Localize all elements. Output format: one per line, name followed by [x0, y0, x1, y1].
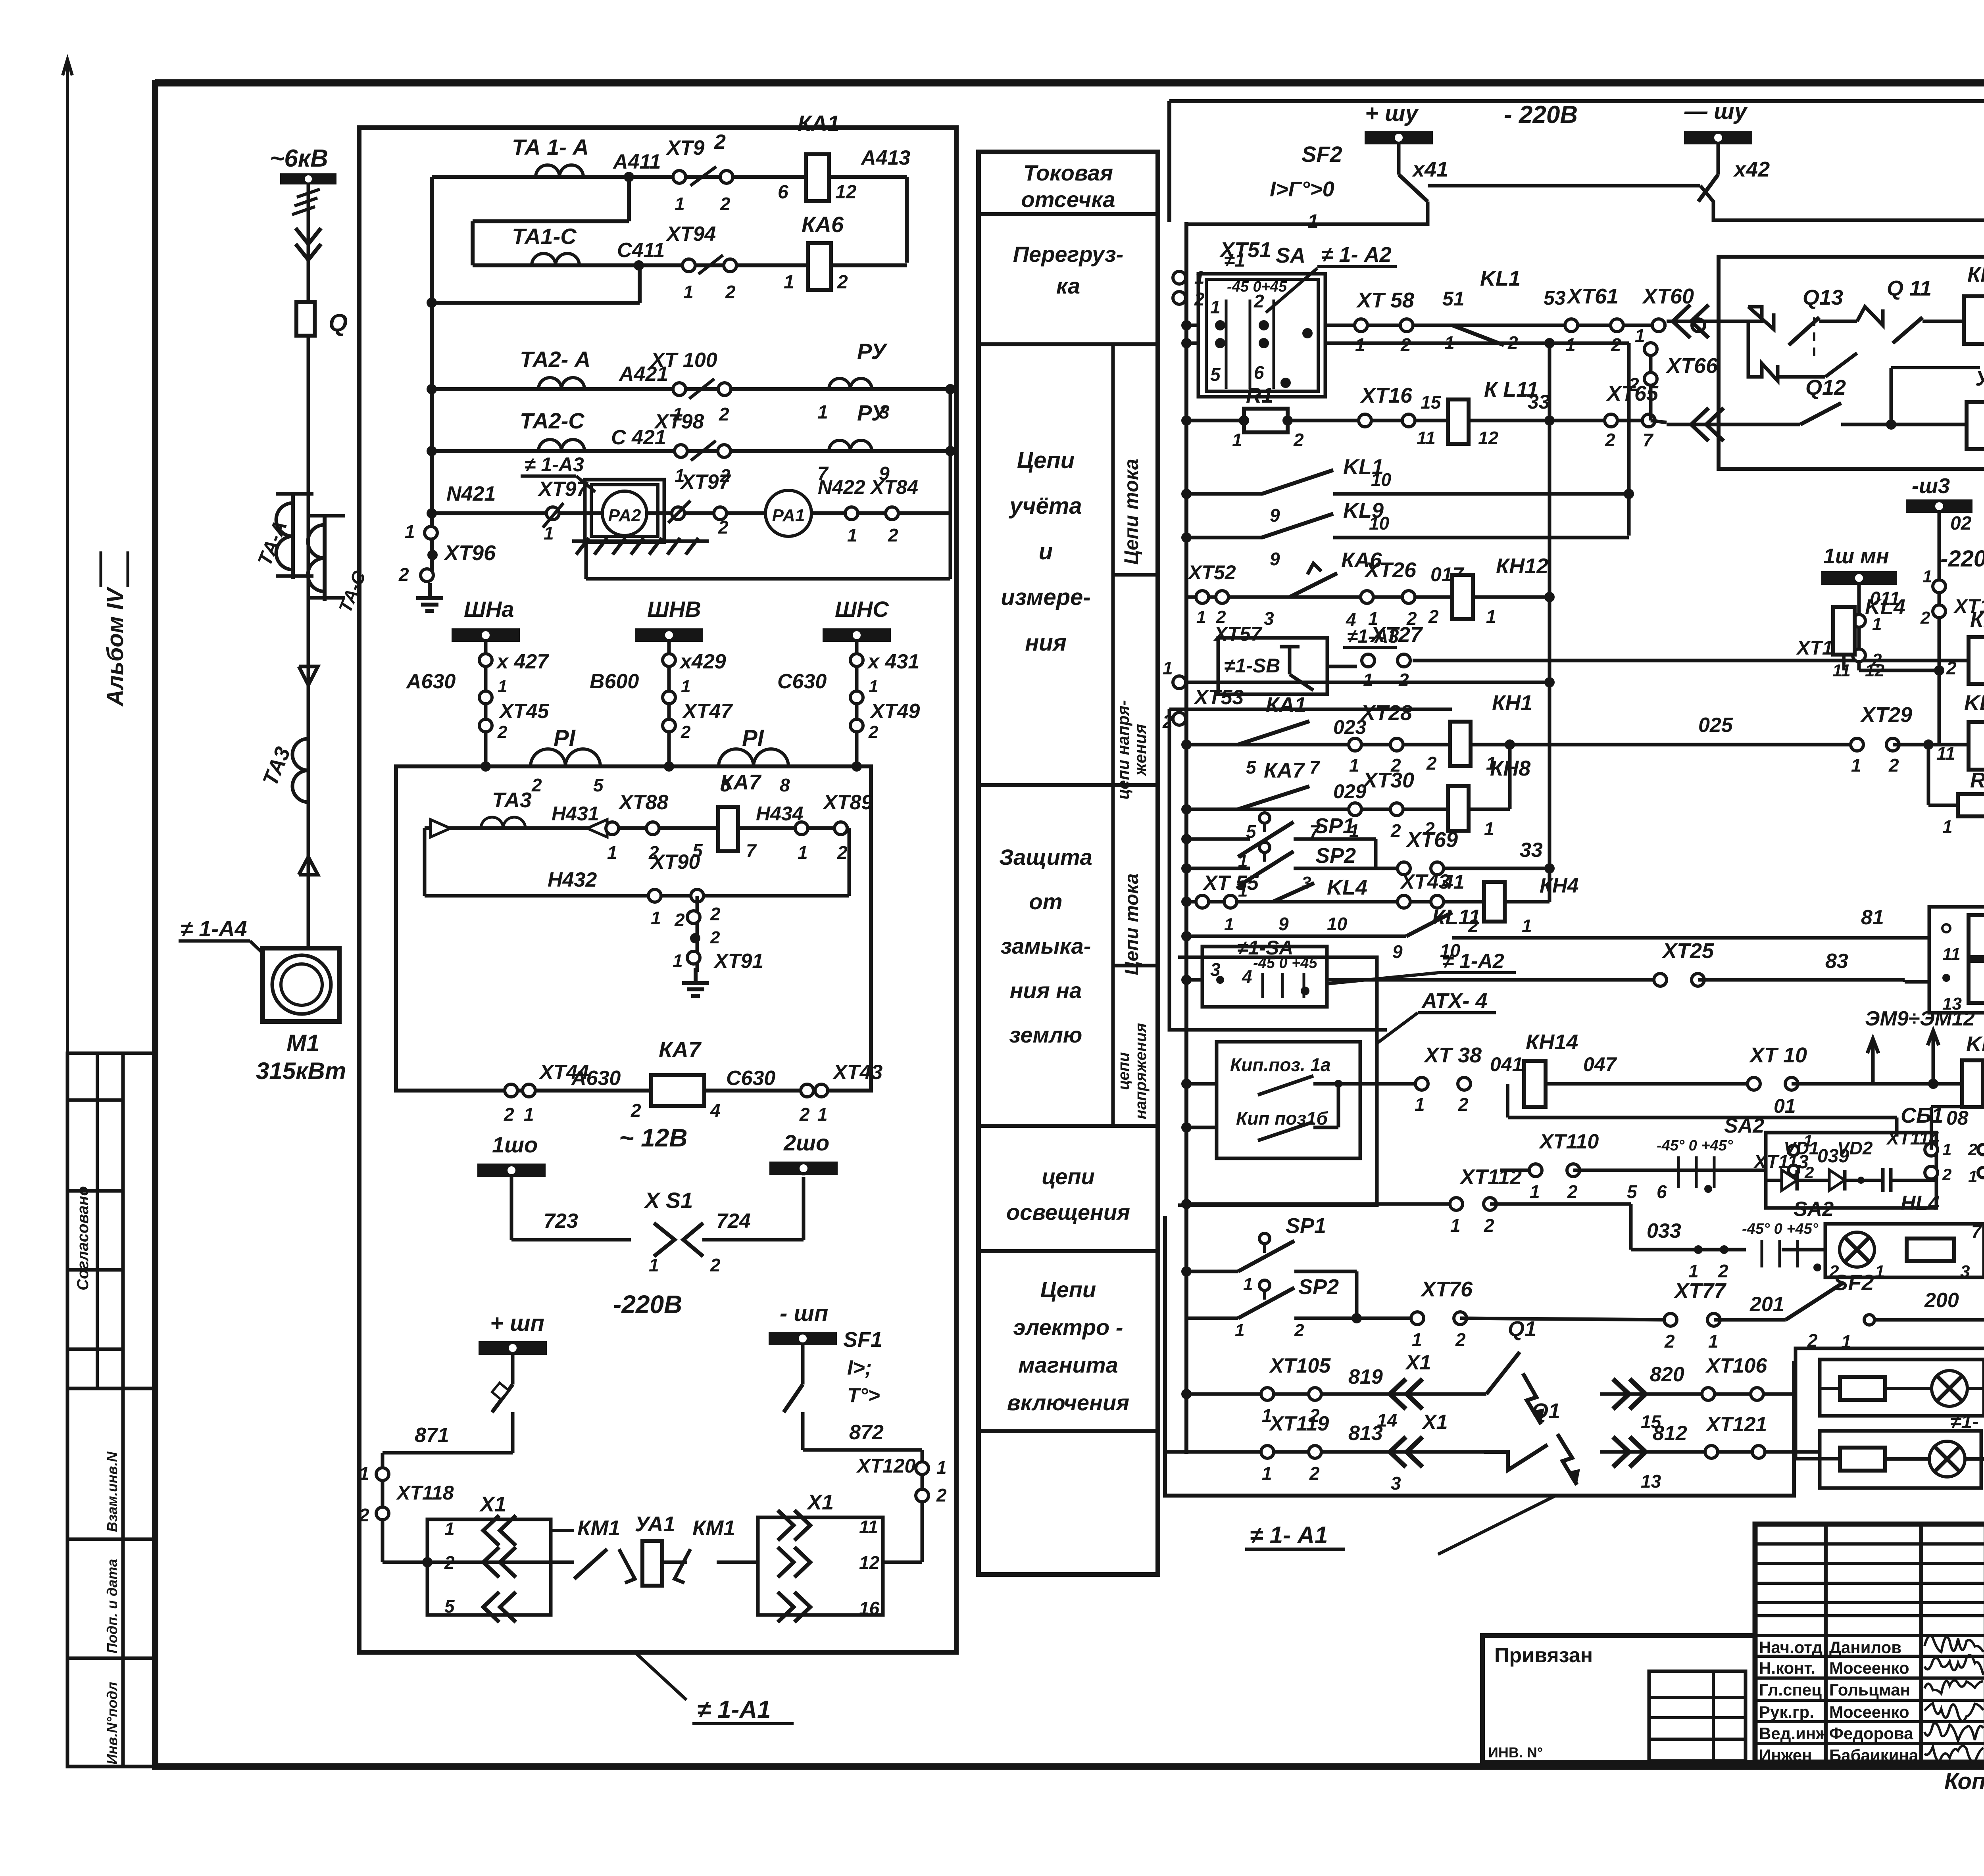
svg-text:2: 2 — [1628, 374, 1639, 395]
svg-text:ХТ97: ХТ97 — [680, 470, 731, 493]
svg-text:12: 12 — [1865, 661, 1884, 680]
svg-text:ХТ 58: ХТ 58 — [1356, 288, 1414, 312]
svg-text:2: 2 — [718, 517, 729, 538]
svg-text:измере-: измере- — [1001, 584, 1090, 610]
svg-text:А411: А411 — [612, 150, 661, 173]
svg-text:KL1: KL1 — [1480, 267, 1521, 290]
svg-text:2: 2 — [1294, 1321, 1304, 1340]
svg-text:2: 2 — [710, 904, 721, 924]
svg-text:VD2: VD2 — [1837, 1138, 1873, 1158]
svg-text:6: 6 — [778, 182, 788, 203]
svg-text:2: 2 — [1567, 1181, 1578, 1202]
svg-text:5: 5 — [1246, 757, 1257, 778]
svg-text:Мосеенко: Мосеенко — [1829, 1659, 1909, 1677]
svg-text:ХТ29: ХТ29 — [1860, 703, 1912, 727]
svg-text:ТА3: ТА3 — [492, 788, 532, 812]
svg-text:Кип поз1б: Кип поз1б — [1236, 1108, 1328, 1129]
svg-text:ХТ16: ХТ16 — [1360, 384, 1413, 407]
svg-text:Н431: Н431 — [552, 803, 599, 825]
svg-text:872: 872 — [849, 1421, 884, 1444]
svg-text:Рук.гр.: Рук.гр. — [1759, 1703, 1814, 1721]
svg-text:УА1: УА1 — [635, 1512, 675, 1536]
svg-text:≠ 1- А2: ≠ 1- А2 — [1321, 243, 1392, 267]
svg-text:Нач.отд: Нач.отд — [1759, 1638, 1823, 1657]
svg-text:SA2: SA2 — [1794, 1198, 1834, 1221]
svg-text:ния: ния — [1025, 630, 1067, 656]
svg-text:Q12: Q12 — [1805, 376, 1846, 399]
svg-text:813: 813 — [1348, 1422, 1383, 1445]
svg-text:2: 2 — [868, 722, 879, 742]
svg-text:02: 02 — [1950, 513, 1972, 534]
svg-text:В600: В600 — [590, 670, 639, 693]
svg-text:2: 2 — [1162, 711, 1173, 732]
svg-text:2: 2 — [504, 1104, 514, 1125]
svg-text:2: 2 — [1605, 430, 1615, 450]
svg-text:6: 6 — [1254, 362, 1264, 383]
svg-text:ХТ119: ХТ119 — [1269, 1412, 1329, 1435]
svg-text:9: 9 — [1392, 941, 1403, 962]
svg-text:7: 7 — [1971, 1221, 1982, 1242]
svg-text:ЭМ9÷ЭМ12: ЭМ9÷ЭМ12 — [1865, 1007, 1975, 1030]
svg-text:цепи напря-: цепи напря- — [1114, 700, 1132, 800]
svg-text:Н.конт.: Н.конт. — [1759, 1659, 1815, 1677]
svg-text:871: 871 — [415, 1424, 449, 1447]
svg-text:Цепи: Цепи — [1017, 447, 1075, 473]
svg-text:1: 1 — [798, 842, 808, 863]
svg-text:200: 200 — [1924, 1289, 1959, 1312]
svg-text:025: 025 — [1698, 714, 1733, 737]
svg-text:1: 1 — [1875, 1262, 1884, 1281]
svg-text:11: 11 — [1832, 661, 1851, 680]
svg-text:2: 2 — [1458, 1094, 1469, 1115]
svg-text:РУ: РУ — [857, 339, 888, 364]
svg-text:ХТ97: ХТ97 — [537, 478, 588, 501]
svg-text:РА1: РА1 — [772, 506, 805, 525]
svg-text:1: 1 — [1851, 755, 1861, 776]
svg-text:Альбом IV: Альбом IV — [102, 586, 128, 707]
svg-text:3: 3 — [1391, 1473, 1401, 1494]
svg-text:R5: R5 — [1970, 768, 1984, 792]
svg-text:1: 1 — [1224, 915, 1234, 934]
svg-text:1: 1 — [675, 194, 685, 214]
svg-text:5: 5 — [1210, 364, 1221, 385]
svg-text:1: 1 — [1942, 1140, 1951, 1159]
svg-text:КА1: КА1 — [1266, 693, 1306, 717]
svg-text:+ шу: + шу — [1365, 100, 1419, 126]
svg-text:1: 1 — [1232, 430, 1242, 450]
svg-text:5: 5 — [444, 1596, 455, 1617]
svg-text:ХТ105: ХТ105 — [1269, 1354, 1331, 1377]
svg-text:учёта: учёта — [1008, 493, 1082, 519]
svg-text:КМ1: КМ1 — [692, 1516, 735, 1540]
svg-text:ХТ28: ХТ28 — [1360, 701, 1412, 725]
svg-text:Инв.N°подл: Инв.N°подл — [104, 1682, 120, 1765]
svg-text:SA2: SA2 — [1724, 1114, 1764, 1137]
svg-text:81: 81 — [1861, 906, 1884, 929]
svg-text:ШНС: ШНС — [835, 597, 889, 622]
svg-text:Q1: Q1 — [1508, 1317, 1536, 1341]
svg-text:КА7: КА7 — [659, 1037, 702, 1062]
svg-text:Х1: Х1 — [806, 1490, 834, 1514]
svg-text:2: 2 — [1968, 1140, 1977, 1159]
svg-text:2: 2 — [714, 131, 726, 154]
svg-text:2: 2 — [631, 1100, 641, 1121]
svg-text:16: 16 — [859, 1598, 880, 1619]
svg-text:2: 2 — [725, 282, 736, 302]
svg-text:КН14: КН14 — [1526, 1030, 1578, 1054]
svg-text:ХТ52: ХТ52 — [1187, 561, 1236, 584]
svg-text:15: 15 — [1421, 392, 1442, 413]
svg-text:5: 5 — [1627, 1181, 1638, 1202]
svg-text:ХТ76: ХТ76 — [1420, 1277, 1473, 1301]
svg-text:SF2: SF2 — [1833, 1270, 1874, 1295]
svg-text:I>;: I>; — [847, 1356, 872, 1379]
svg-text:М1: М1 — [286, 1030, 319, 1056]
svg-text:9: 9 — [1270, 505, 1280, 526]
svg-text:≠ 1-А3: ≠ 1-А3 — [525, 453, 584, 476]
svg-text:цепи: цепи — [1042, 1164, 1095, 1189]
svg-text:ХТ90: ХТ90 — [650, 851, 700, 874]
svg-text:-220В: -220В — [613, 1290, 682, 1319]
svg-text:А630: А630 — [571, 1067, 621, 1090]
svg-text:1: 1 — [1243, 1275, 1253, 1294]
svg-text:ХТ118: ХТ118 — [396, 1482, 454, 1504]
svg-text:Х1: Х1 — [1421, 1411, 1448, 1434]
svg-text:жения: жения — [1131, 724, 1150, 776]
svg-text:SP2: SP2 — [1298, 1275, 1339, 1299]
svg-text:1: 1 — [1922, 567, 1932, 586]
svg-text:2: 2 — [936, 1485, 947, 1505]
svg-text:33: 33 — [1520, 839, 1543, 862]
svg-text:ХТ 10: ХТ 10 — [1749, 1043, 1807, 1067]
svg-text:ИНВ. N°: ИНВ. N° — [1488, 1744, 1543, 1761]
svg-text:ХТ77: ХТ77 — [1673, 1279, 1727, 1303]
svg-text:1: 1 — [1235, 1321, 1244, 1340]
svg-text:КА6: КА6 — [802, 212, 844, 237]
svg-text:12: 12 — [859, 1552, 880, 1573]
svg-text:1: 1 — [817, 402, 828, 423]
svg-text:1ш мн: 1ш мн — [1823, 544, 1889, 568]
svg-text:2: 2 — [497, 722, 508, 742]
svg-text:КН12: КН12 — [1496, 554, 1548, 578]
svg-text:2: 2 — [710, 1255, 721, 1275]
svg-text:1: 1 — [1163, 658, 1173, 678]
svg-text:723: 723 — [544, 1210, 578, 1233]
svg-text:ХТ30: ХТ30 — [1362, 768, 1414, 792]
svg-text:≠ 1- А1: ≠ 1- А1 — [1250, 1522, 1328, 1548]
svg-text:от: от — [1029, 889, 1063, 914]
svg-text:напряжения: напряжения — [1132, 1023, 1150, 1119]
svg-text:1: 1 — [847, 525, 857, 545]
svg-text:2: 2 — [719, 404, 729, 424]
svg-text:ТА2- А: ТА2- А — [520, 347, 590, 372]
svg-text:819: 819 — [1348, 1365, 1383, 1388]
svg-text:КМ1: КМ1 — [1967, 263, 1984, 286]
svg-text:Гольцман: Гольцман — [1829, 1680, 1910, 1699]
svg-text:2: 2 — [674, 910, 685, 930]
svg-text:-220В: -220В — [1940, 546, 1984, 572]
svg-text:3: 3 — [1264, 608, 1274, 629]
svg-text:7: 7 — [1643, 430, 1654, 450]
svg-text:2: 2 — [359, 1505, 369, 1525]
svg-text:-45° 0 +45°: -45° 0 +45° — [1657, 1137, 1733, 1154]
svg-text:Перегруз-: Перегруз- — [1013, 242, 1123, 267]
svg-text:11: 11 — [1942, 945, 1961, 964]
svg-text:Согласовано: Согласовано — [74, 1186, 92, 1290]
svg-text:1: 1 — [444, 1519, 455, 1539]
svg-text:электро -: электро - — [1013, 1315, 1123, 1340]
svg-text:ХТ121: ХТ121 — [1705, 1413, 1767, 1436]
svg-text:ХТ 100: ХТ 100 — [650, 349, 717, 372]
svg-text:1: 1 — [1942, 816, 1953, 837]
svg-text:Цепи: Цепи — [1040, 1277, 1096, 1302]
svg-text:1: 1 — [1307, 210, 1319, 232]
svg-text:724: 724 — [716, 1210, 751, 1233]
svg-text:R1: R1 — [1246, 384, 1273, 407]
svg-text:1: 1 — [651, 908, 661, 928]
svg-text:ХТ 55: ХТ 55 — [1202, 872, 1259, 895]
svg-text:ХТ94: ХТ94 — [665, 223, 716, 246]
svg-text:2: 2 — [837, 272, 848, 293]
svg-text:1: 1 — [405, 521, 415, 542]
svg-text:Федорова: Федорова — [1829, 1724, 1913, 1743]
svg-text:2: 2 — [799, 1104, 810, 1125]
svg-text:КН1: КН1 — [1492, 691, 1532, 715]
svg-text:7: 7 — [1309, 757, 1321, 778]
svg-text:+ шп: + шп — [490, 1310, 544, 1336]
svg-text:53: 53 — [1544, 287, 1566, 309]
svg-text:KL4: KL4 — [1327, 876, 1367, 899]
svg-text:Q1: Q1 — [1532, 1399, 1560, 1423]
svg-text:1: 1 — [359, 1463, 369, 1484]
svg-text:ХТ106: ХТ106 — [1705, 1354, 1767, 1377]
svg-text:отсечка: отсечка — [1021, 187, 1115, 212]
svg-text:ХТ47: ХТ47 — [682, 700, 733, 723]
svg-text:А413: А413 — [860, 146, 910, 169]
svg-text:SP2: SP2 — [1315, 844, 1356, 868]
svg-text:1: 1 — [524, 1104, 534, 1125]
svg-text:≠ 1-А4: ≠ 1-А4 — [181, 916, 247, 941]
svg-text:1шо: 1шо — [492, 1132, 538, 1157]
svg-text:ХТ88: ХТ88 — [618, 791, 668, 814]
svg-text:КА7: КА7 — [1264, 758, 1305, 782]
svg-text:ХТ9: ХТ9 — [665, 136, 704, 159]
svg-text:замыка-: замыка- — [1001, 933, 1091, 958]
svg-text:РІ: РІ — [554, 725, 576, 751]
svg-text:2: 2 — [837, 842, 848, 863]
svg-text:5: 5 — [593, 775, 604, 795]
svg-text:2: 2 — [681, 722, 691, 742]
svg-text:Q 11: Q 11 — [1887, 277, 1932, 300]
svg-text:А630: А630 — [406, 670, 456, 693]
svg-text:2: 2 — [720, 194, 731, 214]
svg-text:ШНВ: ШНВ — [647, 597, 701, 622]
svg-text:ХТ26: ХТ26 — [1364, 558, 1417, 582]
svg-text:С630: С630 — [777, 670, 827, 693]
svg-text:1: 1 — [1415, 1094, 1425, 1115]
svg-text:ХТ 38: ХТ 38 — [1423, 1043, 1482, 1067]
svg-text:ХТ66: ХТ66 — [1665, 354, 1718, 378]
svg-text:1: 1 — [1968, 1167, 1977, 1186]
svg-text:10: 10 — [1371, 469, 1392, 490]
svg-text:2: 2 — [1390, 820, 1401, 841]
svg-text:N422 ХТ84: N422 ХТ84 — [818, 476, 918, 498]
svg-text:KL1: KL1 — [1964, 691, 1984, 715]
svg-text:ния на: ния на — [1010, 978, 1082, 1003]
svg-text:-ш3: -ш3 — [1912, 474, 1950, 498]
svg-text:ХТ60: ХТ60 — [1642, 284, 1694, 308]
svg-text:х 431: х 431 — [867, 650, 919, 673]
svg-text:Взам.инв.N: Взам.инв.N — [104, 1451, 120, 1532]
svg-text:ТА1-С: ТА1-С — [512, 224, 577, 249]
svg-text:ХТ57: ХТ57 — [1213, 623, 1263, 645]
svg-text:С411: С411 — [617, 239, 665, 262]
svg-text:ХТ61: ХТ61 — [1566, 284, 1619, 308]
svg-text:2: 2 — [1253, 291, 1264, 311]
svg-text:2: 2 — [1309, 1463, 1320, 1484]
svg-text:2шо: 2шо — [783, 1130, 829, 1155]
svg-text:9: 9 — [1278, 914, 1289, 934]
svg-text:Цепи тока: Цепи тока — [1121, 874, 1142, 975]
svg-text:HL4: HL4 — [1901, 1192, 1940, 1215]
svg-text:ХТ110: ХТ110 — [1538, 1130, 1599, 1153]
svg-text:магнита: магнита — [1018, 1352, 1118, 1377]
svg-text:С630: С630 — [726, 1067, 775, 1090]
svg-text:УА2: УА2 — [1975, 367, 1984, 390]
svg-text:812: 812 — [1653, 1422, 1687, 1445]
svg-text:ХТ49: ХТ49 — [869, 700, 920, 723]
svg-text:12: 12 — [835, 182, 857, 203]
svg-text:1: 1 — [784, 272, 794, 293]
svg-text:КА7: КА7 — [720, 770, 762, 794]
svg-text:1: 1 — [607, 842, 617, 863]
svg-text:2: 2 — [1942, 1165, 1951, 1184]
svg-text:2: 2 — [888, 525, 898, 545]
svg-text:ТА2-С: ТА2-С — [520, 408, 585, 433]
svg-text:2: 2 — [531, 775, 542, 795]
svg-text:2: 2 — [1398, 670, 1409, 690]
svg-text:33: 33 — [1528, 391, 1550, 413]
svg-text:ХТ69: ХТ69 — [1405, 828, 1458, 852]
svg-text:2: 2 — [1920, 608, 1930, 628]
svg-text:VD1: VD1 — [1784, 1138, 1819, 1158]
svg-text:201: 201 — [1749, 1293, 1784, 1316]
svg-text:1: 1 — [1486, 606, 1496, 627]
svg-text:1: 1 — [498, 677, 507, 696]
svg-text:2: 2 — [1293, 430, 1304, 450]
svg-text:ТА 1- А: ТА 1- А — [512, 134, 589, 159]
svg-text:≠ 1-А2: ≠ 1-А2 — [1442, 950, 1504, 973]
svg-text:ХТ43: ХТ43 — [832, 1061, 882, 1084]
svg-text:4: 4 — [1242, 966, 1252, 987]
svg-text:КА1: КА1 — [798, 111, 840, 136]
svg-text:1: 1 — [1412, 1329, 1422, 1350]
svg-text:х429: х429 — [679, 650, 726, 673]
svg-text:1: 1 — [1708, 1331, 1719, 1352]
svg-text:Вед.инж: Вед.инж — [1759, 1724, 1828, 1743]
svg-text:РА2: РА2 — [608, 506, 641, 525]
svg-text:ХТ53: ХТ53 — [1193, 686, 1244, 709]
svg-text:Кип.поз. 1а: Кип.поз. 1а — [1230, 1054, 1331, 1075]
svg-text:047: 047 — [1583, 1053, 1617, 1075]
svg-text:КL11: КL11 — [1432, 905, 1480, 929]
svg-text:Токовая: Токовая — [1023, 160, 1113, 185]
svg-text:освещения: освещения — [1006, 1200, 1130, 1225]
svg-text:4: 4 — [710, 1100, 721, 1121]
svg-text:2: 2 — [1426, 753, 1437, 774]
svg-text:РУ: РУ — [857, 400, 888, 425]
svg-text:KL9: KL9 — [1966, 1032, 1984, 1056]
svg-text:8: 8 — [780, 775, 790, 795]
svg-text:12: 12 — [1478, 428, 1499, 448]
svg-text:-45° 0 +45°: -45° 0 +45° — [1742, 1221, 1819, 1237]
svg-text:I>Г°>0: I>Г°>0 — [1270, 177, 1334, 201]
svg-text:1: 1 — [649, 1255, 659, 1275]
svg-text:~6кВ: ~6кВ — [270, 145, 328, 172]
svg-text:ка: ка — [1056, 273, 1080, 298]
svg-text:SP1: SP1 — [1314, 814, 1355, 838]
svg-text:51: 51 — [1442, 288, 1465, 310]
svg-text:SP1: SP1 — [1286, 1214, 1326, 1238]
svg-text:1: 1 — [1210, 297, 1221, 317]
svg-text:ХТ103: ХТ103 — [1953, 595, 1984, 617]
svg-text:- 220В: - 220В — [1504, 101, 1578, 129]
svg-text:землю: землю — [1009, 1022, 1082, 1047]
svg-text:1: 1 — [1530, 1181, 1540, 1202]
svg-text:7: 7 — [746, 840, 757, 861]
svg-text:1: 1 — [681, 677, 690, 696]
svg-text:1: 1 — [869, 677, 878, 696]
svg-text:N421: N421 — [446, 482, 496, 505]
svg-text:01: 01 — [1774, 1095, 1796, 1117]
svg-text:2: 2 — [444, 1552, 455, 1573]
svg-text:Бабаикина: Бабаикина — [1829, 1746, 1919, 1765]
svg-text:11: 11 — [859, 1517, 878, 1537]
svg-text:ХТ25: ХТ25 — [1661, 939, 1714, 963]
svg-text:41: 41 — [1442, 871, 1465, 893]
svg-text:2: 2 — [1946, 658, 1957, 678]
svg-text:ХТ112: ХТ112 — [1459, 1165, 1522, 1189]
svg-text:08: 08 — [1946, 1107, 1969, 1129]
svg-text:1: 1 — [1484, 818, 1494, 839]
svg-text:1: 1 — [1522, 916, 1532, 936]
svg-text:1: 1 — [683, 282, 694, 302]
svg-text:ШНа: ШНа — [464, 597, 514, 622]
svg-text:1: 1 — [1688, 1261, 1699, 1281]
svg-text:Инжен: Инжен — [1759, 1746, 1812, 1765]
svg-text:Защита: Защита — [999, 845, 1092, 870]
svg-text:Привязан: Привязан — [1494, 1644, 1593, 1667]
svg-text:9: 9 — [1270, 549, 1280, 569]
svg-text:6: 6 — [1657, 1181, 1667, 1202]
svg-text:≠1: ≠1 — [1224, 250, 1245, 271]
svg-text:315кВт: 315кВт — [256, 1058, 346, 1084]
svg-text:2: 2 — [398, 564, 409, 585]
svg-text:— шу: — шу — [1684, 98, 1748, 124]
svg-text:КН4: КН4 — [1540, 874, 1579, 897]
svg-text:РІ: РІ — [742, 725, 765, 751]
svg-text:Х1: Х1 — [479, 1492, 506, 1516]
svg-text:АТХ- 4: АТХ- 4 — [1421, 989, 1488, 1013]
svg-text:цепи: цепи — [1115, 1052, 1132, 1090]
svg-text:1: 1 — [817, 1104, 828, 1125]
svg-text:820: 820 — [1650, 1363, 1684, 1386]
svg-text:13: 13 — [1641, 1471, 1661, 1492]
svg-text:10: 10 — [1369, 513, 1390, 534]
svg-text:SA: SA — [1276, 244, 1305, 267]
svg-text:2: 2 — [1888, 755, 1899, 776]
svg-text:1: 1 — [1450, 1215, 1461, 1236]
